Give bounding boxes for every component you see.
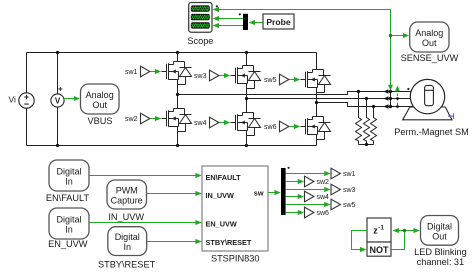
svg-text:NOT: NOT [370,245,390,255]
wire sw out [268,192,280,194]
wire bottom rail [27,145,317,147]
svg-text:Out: Out [432,232,447,242]
svg-text:Capture: Capture [111,196,143,206]
svg-text:IN_UVW: IN_UVW [108,212,144,222]
from tag sw1 [141,66,150,77]
wire leg1 [177,53,179,146]
svg-text:Out: Out [422,38,437,48]
scope screen 3 [191,22,210,28]
svg-text:sw6: sw6 [264,124,277,131]
svg-text:Digital: Digital [56,215,81,225]
svg-text:sw: sw [254,188,264,197]
node resistor B tap [365,97,368,100]
wire phase B [247,98,412,100]
transistor sw5 [301,70,331,93]
node top rail V [56,51,59,54]
svg-text:Probe: Probe [266,17,291,27]
NOT block [367,242,391,256]
svg-text:Analog: Analog [415,28,443,38]
svg-text:Digital: Digital [115,232,140,242]
svg-text:VBUS: VBUS [87,116,112,126]
wire V lower [57,107,59,146]
svg-text:Scope: Scope [187,36,213,46]
svg-text:EN\FAULT: EN\FAULT [206,173,242,182]
svg-text:EN_UVW: EN_UVW [48,239,88,249]
svg-text:sw3: sw3 [194,73,207,80]
node phase C tap [315,101,318,104]
resistor R phase A [356,92,362,145]
wire z-1 to NOT feedback [352,231,368,250]
svg-text:PWM: PWM [116,186,138,196]
node resistor A tap [357,90,360,93]
svg-text:EN_UVW: EN_UVW [206,219,237,228]
motor log badge [407,88,409,90]
node phase A tap [176,93,179,96]
svg-text:sw2: sw2 [317,179,330,186]
arrow phase A into bridge [384,89,389,94]
resistor R phase C [371,107,377,145]
digital in EN_UVW [49,208,89,239]
goto tag sw4 [305,191,314,202]
goto tag sw2 [305,176,314,187]
unit delay z-1 block [367,218,391,242]
wire EN_UVW [89,222,200,224]
svg-text:In: In [123,242,131,252]
svg-text:STBY\RESET: STBY\RESET [206,238,252,247]
node sense B [389,97,392,100]
wire STBY\RESET [147,241,200,243]
wire sense branch to analog out [391,35,408,37]
node resistor common [365,143,368,146]
voltage source Vi [19,93,34,108]
node top rail leg1 [176,51,179,54]
transistor sw1 [162,62,192,85]
node measurement C [396,105,399,108]
scope screen 1 [191,5,210,11]
wire phase C [317,103,415,107]
wire measurement dashed [397,89,399,107]
svg-text:sw3: sw3 [343,187,356,194]
svg-text:-1: -1 [378,224,384,231]
node bottom rail leg2 [245,144,248,147]
wire V upper [57,53,59,95]
node feedback junction [403,229,406,232]
node sense C [389,105,392,108]
goto tag sw5 [331,199,340,210]
motor base [403,107,452,120]
digital in STBY\RESET [108,227,147,256]
wire leg3 [316,53,318,146]
node bottom rail V [56,144,59,147]
node sense branch [389,34,392,37]
demux bar [281,168,286,215]
pwm capture block [107,180,147,209]
digital in EN\FAULT [49,160,89,191]
wire V to VBUS analog out [64,98,78,100]
svg-text:Vi: Vi [9,95,17,105]
node resistor C tap [372,105,375,108]
goto tag sw3 [331,184,340,195]
demux log badge [288,167,290,169]
wire sw5 out [286,204,325,206]
svg-text:Out: Out [92,100,107,110]
svg-text:STBY\RESET: STBY\RESET [98,259,156,269]
transistor sw4 [231,113,261,136]
svg-text:Perm.-Magnet SM: Perm.-Magnet SM [394,127,469,137]
goto tag sw6 [305,207,314,218]
svg-text:LED Blinking: LED Blinking [414,247,467,257]
wire Vi upper [26,53,28,93]
wire scope input 2 [214,18,243,20]
wire phase A [178,92,413,95]
resistor R phase B [364,99,370,145]
svg-text:IN_UVW: IN_UVW [206,191,234,200]
analog out VBUS block [81,84,120,114]
motor mechanical port [448,113,454,119]
wire sense junction vertical [390,92,392,107]
svg-text:sw4: sw4 [317,194,330,201]
wire sw4 out [286,196,299,198]
transistor sw2 [162,109,192,132]
transistor sw6 [301,117,331,140]
wire Vi lower [26,108,28,145]
wire sw3 out [286,189,325,191]
svg-text:STSPIN830: STSPIN830 [211,254,260,264]
arrow phase C into bridge [384,104,389,109]
motor rotor icon [425,85,434,105]
wire scope input 1 from sense [214,9,391,11]
svg-text:sw1: sw1 [125,69,138,76]
svg-text:sw5: sw5 [343,202,356,209]
svg-text:V: V [55,97,61,106]
svg-text:sw2: sw2 [125,116,138,123]
wire probe to mux [250,22,263,24]
wire resistor common [359,144,374,146]
scope log badge [216,5,218,7]
node top rail leg2 [245,51,248,54]
digital out block [421,216,459,246]
svg-text:sw5: sw5 [264,77,277,84]
node sense A [389,90,392,93]
transistor sw3 [231,66,261,89]
svg-text:Analog: Analog [86,90,114,100]
mux log badge [239,13,241,15]
from tag sw6 [280,121,289,132]
stspin830 block [202,166,268,251]
svg-text:In: In [65,177,73,187]
svg-text:SENSE_UVW: SENSE_UVW [401,53,459,63]
wire top rail [27,52,317,54]
from tag sw4 [210,117,219,128]
probe block [263,14,294,29]
voltmeter V [51,94,64,107]
wire EN\FAULT [89,175,200,177]
from tag sw3 [210,70,219,81]
motor body Perm.-Magnet SM [410,79,444,113]
mux bar [243,14,248,30]
svg-text:sw6: sw6 [317,210,330,217]
svg-text:channel: 31: channel: 31 [417,257,465,267]
svg-text:Digital: Digital [56,167,81,177]
svg-text:Digital: Digital [427,222,452,232]
svg-text:In: In [65,225,73,235]
wire sw1 out [286,173,325,175]
wire sw2 out [286,181,299,183]
scope screen 2 [191,14,210,20]
arrow phase B into bridge [384,96,389,101]
svg-text:sw4: sw4 [194,120,207,127]
svg-text:EN\FAULT: EN\FAULT [46,193,90,203]
from tag sw2 [141,113,150,124]
wire IN_UVW [147,193,201,195]
wire sense vertical [390,10,392,88]
wire leg2 [246,53,248,146]
analog out SENSE_UVW block [410,22,449,52]
goto tag sw1 [331,168,340,179]
wire NOT out to z-1 and digital out [391,231,415,250]
node measurement B [396,97,399,100]
wire scope input 3 [214,25,243,27]
svg-text:sw1: sw1 [343,171,356,178]
wire sw6 out [286,212,299,214]
from tag sw5 [280,74,289,85]
scope block [189,3,212,33]
node bottom rail leg1 [176,144,179,147]
node phase B tap [245,97,248,100]
